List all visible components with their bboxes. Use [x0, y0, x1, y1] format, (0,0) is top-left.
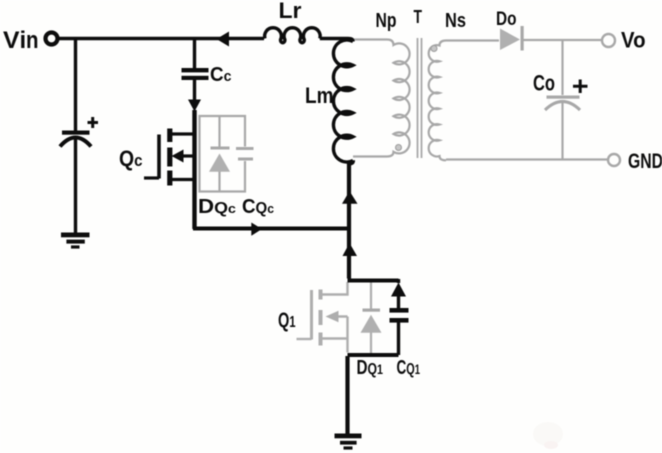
svg-text:Vo: Vo	[621, 28, 646, 53]
svg-text:n: n	[26, 27, 39, 54]
svg-text:Ns: Ns	[445, 10, 466, 32]
svg-text:DQ1: DQ1	[357, 357, 384, 379]
svg-text:T: T	[414, 7, 423, 27]
svg-text:Do: Do	[496, 8, 517, 30]
svg-text:Lm: Lm	[305, 83, 334, 108]
svg-text:CQ1: CQ1	[397, 357, 421, 379]
svg-text:Lr: Lr	[279, 0, 302, 23]
svg-text:Cc: Cc	[210, 64, 232, 86]
svg-text:Co: Co	[533, 71, 555, 96]
svg-text:V: V	[3, 27, 20, 54]
svg-text:GND: GND	[628, 149, 662, 173]
svg-text:Np: Np	[376, 10, 397, 32]
